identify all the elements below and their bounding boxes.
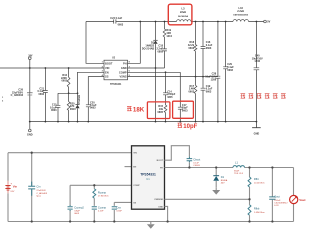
svg-text:0.1uF: 0.1uF — [206, 88, 213, 91]
svg-text:0603: 0603 — [51, 109, 57, 112]
svg-text:0603: 0603 — [189, 91, 195, 94]
svg-text:0603: 0603 — [61, 80, 67, 83]
svg-text:+: + — [10, 182, 12, 186]
svg-text:42.2k: 42.2k — [188, 44, 195, 47]
svg-text:1206: 1206 — [211, 78, 217, 81]
svg-text:10pF: 10pF — [183, 124, 197, 130]
svg-text:C0603: C0603 — [193, 165, 200, 167]
svg-text:0.1uF: 0.1uF — [227, 66, 234, 69]
svg-text:3.9pF: 3.9pF — [74, 210, 80, 212]
svg-text:R17: R17 — [190, 85, 195, 88]
svg-text:C40: C40 — [255, 55, 260, 58]
svg-text:TPS54331: TPS54331 — [140, 172, 156, 176]
svg-text:TDK CLF: TDK CLF — [234, 173, 244, 175]
svg-text:100uF: 100uF — [274, 200, 281, 202]
svg-text:C28: C28 — [212, 73, 217, 76]
svg-text:COMP: COMP — [133, 185, 140, 187]
svg-text:C3216X5R0J: C3216X5R0J — [274, 203, 287, 205]
svg-text:56uH: 56uH — [234, 170, 240, 172]
svg-text:GND: GND — [158, 206, 163, 208]
svg-text:0603: 0603 — [227, 69, 233, 72]
svg-text:1.69k/Ohm: 1.69k/Ohm — [254, 212, 265, 214]
svg-text:EN: EN — [133, 167, 136, 169]
svg-text:0603: 0603 — [206, 91, 212, 94]
svg-text:R18: R18 — [190, 41, 195, 44]
svg-text:17.8k/Ohm: 17.8k/Ohm — [98, 195, 109, 197]
svg-text:1206: 1206 — [254, 60, 260, 63]
svg-text:TPS54331: TPS54331 — [110, 83, 122, 86]
svg-text:2.2nF: 2.2nF — [156, 48, 163, 51]
svg-text:10uF/10V: 10uF/10V — [252, 57, 263, 60]
svg-text:0805: 0805 — [157, 50, 163, 53]
svg-text:Vin: Vin — [13, 184, 18, 188]
svg-text:R19: R19 — [166, 29, 171, 32]
svg-text:C18: C18 — [158, 45, 163, 48]
svg-text:BOOT: BOOT — [157, 160, 164, 162]
svg-text:GND: GND — [27, 133, 33, 136]
svg-text:0603: 0603 — [90, 107, 96, 110]
svg-text:0603: 0603 — [118, 23, 124, 26]
svg-text:VIN: VIN — [133, 153, 137, 155]
svg-text:C29: C29 — [227, 63, 232, 66]
svg-text:10uF/10V: 10uF/10V — [205, 75, 216, 78]
svg-text:GND: GND — [254, 133, 260, 136]
svg-text:0.1uF: 0.1uF — [206, 44, 213, 47]
svg-text:10.2k/Ohm: 10.2k/Ohm — [254, 183, 265, 185]
svg-text:10R: 10R — [166, 32, 171, 35]
svg-text:0603: 0603 — [206, 47, 212, 50]
svg-text:0805: 0805 — [167, 97, 173, 99]
svg-text:1N4822: 1N4822 — [145, 44, 154, 47]
svg-text:0603: 0603 — [38, 93, 44, 96]
svg-text:5V: 5V — [267, 21, 270, 24]
svg-text:DO-214AB: DO-214AB — [142, 47, 155, 50]
svg-text:C17: C17 — [182, 104, 187, 107]
svg-text:0.1uF: 0.1uF — [193, 163, 199, 165]
svg-text:22uF/50V: 22uF/50V — [36, 190, 46, 192]
svg-text:0603: 0603 — [70, 108, 76, 111]
svg-text:C19: C19 — [206, 85, 211, 88]
svg-text:10pF: 10pF — [182, 107, 188, 110]
svg-text:40V: 40V — [221, 182, 225, 184]
svg-text:R15: R15 — [158, 105, 163, 108]
svg-text:VSENSE: VSENSE — [154, 199, 163, 201]
svg-text:2.2uH: 2.2uH — [237, 10, 244, 13]
svg-text:C24 0.1uF: C24 0.1uF — [110, 17, 122, 20]
svg-text:C16: C16 — [206, 41, 211, 44]
svg-text:22uH: 22uH — [180, 11, 186, 14]
svg-text:0603: 0603 — [74, 213, 80, 215]
svg-text:6.3V: 6.3V — [274, 205, 279, 207]
svg-text:10k: 10k — [159, 108, 164, 111]
svg-text:3.3nF: 3.3nF — [116, 210, 122, 212]
svg-text:Vout: Vout — [299, 198, 305, 202]
svg-text:24V: 24V — [10, 191, 14, 193]
svg-text:0805: 0805 — [157, 111, 163, 114]
svg-text:0603: 0603 — [189, 47, 195, 50]
svg-text:PGDLN: PGDLN — [78, 95, 81, 104]
svg-text:L16: L16 — [239, 7, 244, 10]
svg-text:2.2nF: 2.2nF — [98, 210, 104, 212]
svg-text:PH: PH — [160, 168, 163, 170]
svg-text:2.4K: 2.4K — [189, 88, 194, 91]
svg-text:0603: 0603 — [182, 110, 188, 113]
svg-text:18K: 18K — [133, 106, 145, 113]
svg-text:C_AD6403: C_AD6403 — [11, 94, 24, 97]
svg-text:1210: 1210 — [166, 35, 172, 38]
